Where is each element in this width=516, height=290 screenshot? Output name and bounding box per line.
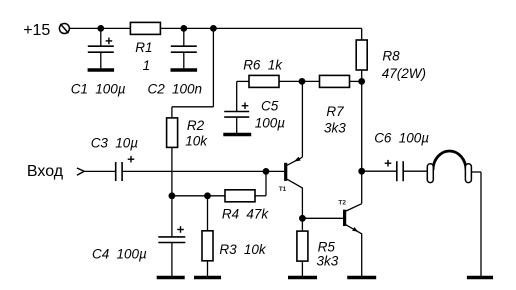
- wire top rail segment 2: [161, 27, 362, 29]
- ground phones: [467, 276, 493, 280]
- wire top rail segment 1: [70, 27, 131, 29]
- wire R2 branch route: [172, 28, 214, 118]
- svg-text:3k3: 3k3: [317, 254, 339, 269]
- resistor R1: [130, 22, 160, 34]
- input arrow: [77, 168, 84, 175]
- svg-text:47(2W): 47(2W): [382, 66, 426, 81]
- node lower rail R3: [204, 192, 211, 199]
- svg-text:R2: R2: [187, 118, 205, 133]
- svg-text:3k3: 3k3: [324, 120, 346, 135]
- svg-text:C5: C5: [261, 99, 279, 114]
- svg-text:C6 100µ: C6 100µ: [374, 131, 429, 146]
- wire R4 right lead up to base node: [255, 171, 266, 195]
- svg-text:R8: R8: [382, 49, 400, 64]
- svg-text:C2 100n: C2 100n: [148, 81, 203, 96]
- svg-text:T1: T1: [279, 186, 287, 193]
- wire T1 collector to T2 base: [302, 217, 343, 219]
- svg-text:10k: 10k: [185, 134, 208, 149]
- svg-text:R1: R1: [135, 40, 152, 55]
- ground R5: [288, 276, 317, 280]
- capacitor C4: [158, 196, 185, 276]
- resistor R2: [167, 118, 178, 147]
- ground C5: [223, 133, 251, 137]
- capacitor C5: [224, 81, 249, 132]
- wire input to C3: [84, 170, 115, 172]
- wire phones to ground column: [472, 172, 481, 276]
- svg-text:R6 1k: R6 1k: [243, 58, 283, 73]
- ground C4: [157, 276, 185, 280]
- ground C1: [88, 68, 115, 72]
- resistor R8: [356, 40, 367, 81]
- node output: [358, 168, 365, 175]
- capacitor C6: [385, 160, 404, 181]
- svg-text:Вход: Вход: [27, 163, 64, 180]
- node T2 base R5: [299, 215, 306, 222]
- transistor T1: [286, 81, 303, 218]
- resistor R7: [302, 75, 362, 87]
- capacitor C2: [171, 28, 197, 68]
- wire top-right corner down to R8: [361, 28, 363, 40]
- svg-text:C3 10µ: C3 10µ: [91, 135, 139, 150]
- wire C3 to T1 base: [123, 170, 284, 172]
- node C1 top: [97, 25, 104, 32]
- svg-text:R5: R5: [318, 239, 336, 254]
- svg-text:100µ: 100µ: [255, 115, 286, 130]
- node T1 base: [263, 168, 270, 175]
- svg-text:R4 47k: R4 47k: [222, 207, 270, 222]
- ground T2 emitter: [347, 276, 376, 280]
- headphones: [427, 151, 471, 183]
- capacitor C1: [88, 28, 114, 68]
- wire C6 to phones: [404, 170, 427, 172]
- capacitor C3: [116, 156, 135, 181]
- node R8 bottom: [358, 78, 365, 85]
- svg-text:T2: T2: [338, 200, 346, 207]
- resistor R5: [297, 218, 308, 276]
- svg-text:C1 100µ: C1 100µ: [71, 81, 126, 96]
- resistor R3: [202, 196, 213, 276]
- svg-text:R3 10k: R3 10k: [219, 242, 267, 257]
- node R2 branch: [210, 25, 217, 32]
- node C2 top: [180, 25, 187, 32]
- node lower rail left: [169, 192, 176, 199]
- ground C2: [171, 68, 198, 72]
- node R6 R7: [299, 78, 306, 85]
- svg-text:R7: R7: [326, 104, 344, 119]
- svg-text:C4 100µ: C4 100µ: [92, 246, 147, 261]
- resistor R6: [237, 75, 302, 87]
- resistor R4: [225, 190, 255, 202]
- power terminal +15: [59, 24, 69, 34]
- svg-text:+15: +15: [23, 22, 50, 39]
- wire output to C6: [362, 170, 397, 172]
- wire output column: [361, 81, 363, 203]
- svg-text:1: 1: [143, 58, 151, 73]
- transistor T2: [345, 204, 362, 276]
- ground R3: [194, 276, 221, 280]
- wire R2 bottom crossing input line: [171, 147, 173, 195]
- wire lower rail: [172, 195, 225, 197]
